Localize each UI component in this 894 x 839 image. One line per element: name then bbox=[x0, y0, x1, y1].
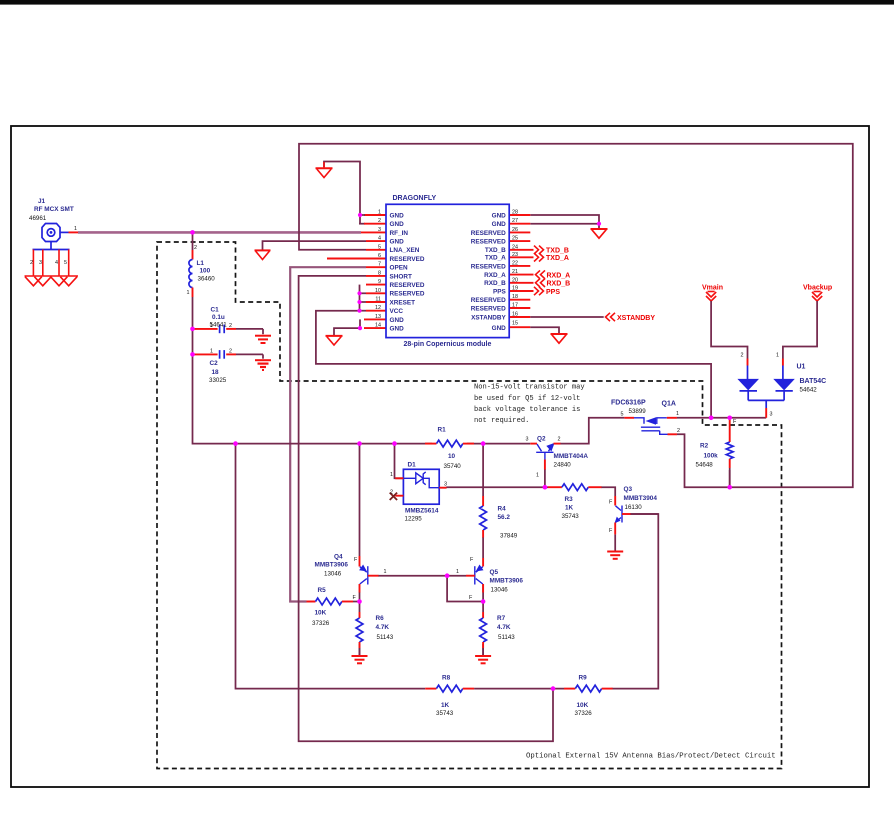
svg-text:DRAGONFLY: DRAGONFLY bbox=[393, 195, 437, 202]
node R4 branch junction bbox=[481, 441, 486, 446]
svg-text:13: 13 bbox=[375, 314, 381, 320]
wire pin15 stub and gnd bbox=[509, 326, 530, 328]
wire pin4 GND to ground bbox=[263, 241, 367, 250]
svg-text:54642: 54642 bbox=[800, 387, 818, 394]
node A mid-rail left junction bbox=[233, 441, 238, 446]
svg-text:LNA_XEN: LNA_XEN bbox=[390, 247, 420, 254]
svg-text:4: 4 bbox=[378, 236, 381, 242]
svg-text:2: 2 bbox=[229, 349, 232, 355]
wire pin14 red stub bbox=[364, 327, 386, 329]
svg-text:RF MCX SMT: RF MCX SMT bbox=[34, 206, 74, 213]
resistor R7 bbox=[480, 612, 516, 656]
svg-text:Q5: Q5 bbox=[490, 569, 499, 576]
svg-text:Vmain: Vmain bbox=[702, 285, 723, 292]
svg-text:5: 5 bbox=[378, 244, 381, 250]
svg-text:GND: GND bbox=[390, 317, 405, 324]
svg-text:3: 3 bbox=[444, 482, 447, 488]
svg-text:C2: C2 bbox=[210, 360, 219, 367]
wire RF_IN red stub pin3 bbox=[361, 231, 386, 233]
svg-text:2: 2 bbox=[194, 245, 197, 251]
svg-text:RESERVED: RESERVED bbox=[390, 282, 425, 289]
resistor R4 bbox=[480, 496, 518, 540]
diode D1 (zener, boxed) bbox=[390, 462, 447, 523]
node R2 bottom junction bbox=[727, 485, 732, 490]
wire R1 right to Q2 pin3 bbox=[467, 443, 530, 445]
svg-text:R9: R9 bbox=[579, 675, 588, 682]
wire pin24 stub bbox=[509, 249, 533, 251]
wire OPEN net: pin7 left and down to R5 bbox=[290, 267, 366, 601]
wire Q5 emitter column R4 bottom bbox=[482, 537, 484, 558]
svg-text:PPS: PPS bbox=[493, 288, 507, 295]
wire node A column down to R8 rail bbox=[236, 444, 426, 689]
node RF line / L1 junction bbox=[190, 230, 195, 235]
connector J1 RF MCX SMT bbox=[29, 198, 78, 250]
IC right pin numbers bbox=[512, 210, 518, 327]
svg-text:37849: 37849 bbox=[500, 533, 518, 540]
inductor L1 bbox=[187, 245, 216, 297]
svg-text:R1: R1 bbox=[438, 427, 447, 434]
svg-text:TXD_A: TXD_A bbox=[485, 255, 506, 262]
svg-text:36460: 36460 bbox=[198, 276, 216, 283]
node pin14 gnd junction bbox=[358, 326, 362, 330]
svg-text:17: 17 bbox=[512, 303, 518, 309]
transistor Q1A FDC6316P (P-MOSFET) bbox=[611, 400, 680, 435]
svg-text:8: 8 bbox=[378, 270, 381, 276]
resistor R5 bbox=[307, 587, 360, 627]
op IC U-module DRAGONFLY 28-pin Copernicus module bbox=[386, 195, 509, 348]
svg-text:GND: GND bbox=[492, 212, 507, 219]
svg-text:GND: GND bbox=[390, 326, 405, 333]
wire pin18 stub bbox=[509, 299, 530, 301]
resistor R3 bbox=[548, 484, 602, 520]
capacitor C1 bbox=[195, 307, 264, 335]
node R2 top junction bbox=[727, 416, 732, 421]
wire L1 branch down from RF line bbox=[192, 232, 194, 250]
node D1 branch junction bbox=[392, 441, 397, 446]
svg-text:23: 23 bbox=[512, 252, 518, 258]
port XSTANDBY bbox=[606, 313, 656, 322]
svg-text:6: 6 bbox=[378, 253, 381, 259]
node Q4-Q5 base rail junction bbox=[445, 573, 450, 578]
wire R6 bottom to ground bbox=[359, 644, 361, 655]
port TXD_B bbox=[534, 246, 569, 255]
schematic frame bbox=[11, 126, 869, 787]
node pin12 VCC junction bbox=[357, 309, 361, 313]
svg-text:R2: R2 bbox=[700, 443, 709, 450]
svg-text:16: 16 bbox=[512, 312, 518, 318]
svg-text:MMBT3904: MMBT3904 bbox=[624, 495, 658, 502]
wire R2 column bbox=[729, 468, 731, 487]
svg-text:26: 26 bbox=[512, 227, 518, 233]
svg-text:J1: J1 bbox=[38, 198, 46, 205]
wire main mid rail at y=443.6 bbox=[236, 443, 433, 445]
wire pin2 red stub bbox=[359, 223, 365, 225]
svg-text:R5: R5 bbox=[318, 587, 327, 594]
wire pins9-12 red stubs bbox=[366, 284, 386, 286]
wire SHORT net: pin8 left, down, right to R8/R9 junction bbox=[299, 276, 553, 741]
svg-text:37326: 37326 bbox=[575, 710, 593, 717]
svg-text:3: 3 bbox=[39, 260, 42, 266]
svg-text:4.7K: 4.7K bbox=[376, 624, 390, 631]
ground bar under J1 bbox=[25, 276, 79, 286]
svg-text:5: 5 bbox=[621, 412, 624, 418]
svg-text:GND: GND bbox=[390, 239, 405, 246]
svg-text:28-pin Copernicus module: 28-pin Copernicus module bbox=[404, 341, 492, 348]
wire Q4 base to Q5 base rail bbox=[378, 575, 466, 577]
resistor R1 bbox=[425, 427, 474, 471]
svg-text:GND: GND bbox=[492, 221, 507, 228]
port PPS bbox=[534, 287, 560, 296]
svg-text:RF_IN: RF_IN bbox=[390, 230, 409, 237]
svg-text:100k: 100k bbox=[704, 453, 719, 460]
svg-text:back voltage tolerance is: back voltage tolerance is bbox=[474, 406, 580, 414]
svg-text:28: 28 bbox=[512, 210, 518, 216]
svg-text:0.1u: 0.1u bbox=[212, 314, 225, 321]
wire pin17 stub bbox=[509, 307, 530, 309]
node VCC / Q1A pin1 junction bbox=[709, 416, 714, 421]
svg-text:GND: GND bbox=[492, 325, 507, 332]
IC right pin names bbox=[471, 212, 507, 331]
svg-text:54648: 54648 bbox=[696, 462, 714, 469]
svg-text:not required.: not required. bbox=[474, 417, 529, 425]
svg-text:51143: 51143 bbox=[498, 634, 515, 641]
svg-text:XRESET: XRESET bbox=[390, 299, 416, 306]
wire pin6 reserved stub bbox=[327, 258, 386, 260]
svg-text:5: 5 bbox=[64, 260, 67, 266]
svg-text:56.2: 56.2 bbox=[498, 514, 511, 521]
wire pin23 stub bbox=[509, 256, 533, 258]
svg-text:37326: 37326 bbox=[312, 620, 330, 627]
svg-text:51143: 51143 bbox=[377, 634, 394, 641]
svg-text:12: 12 bbox=[375, 305, 381, 311]
wire RF line from J1 to RF_IN pin bbox=[78, 231, 361, 234]
svg-text:RESERVED: RESERVED bbox=[471, 297, 506, 304]
svg-text:46961: 46961 bbox=[29, 215, 47, 222]
svg-text:VCC: VCC bbox=[390, 308, 404, 315]
svg-text:PPS: PPS bbox=[546, 289, 560, 296]
svg-text:C1: C1 bbox=[211, 307, 220, 314]
wire VCC bus pins 9-12 bbox=[359, 285, 361, 311]
dashed boundary of optional antenna bias/protect circuit bbox=[157, 242, 782, 769]
wire pin19 stub bbox=[509, 290, 533, 292]
svg-text:9: 9 bbox=[378, 279, 381, 285]
wire LNA_XEN top loop: pin5 left, up, right along top, down right side to lower rail bbox=[299, 144, 853, 487]
svg-text:1: 1 bbox=[74, 226, 77, 232]
transistor Q2 MMBT404A bbox=[526, 435, 589, 478]
port RXD_B bbox=[536, 279, 571, 288]
node pin1 gnd junction bbox=[358, 213, 362, 217]
svg-text:27: 27 bbox=[512, 218, 518, 224]
wire pin16 stub and XSTANDBY run bbox=[509, 316, 530, 318]
svg-text:RXD_A: RXD_A bbox=[547, 272, 571, 279]
svg-text:11: 11 bbox=[375, 297, 381, 303]
port RXD_A bbox=[536, 270, 571, 279]
svg-text:10: 10 bbox=[448, 453, 456, 460]
svg-text:MMBT404A: MMBT404A bbox=[554, 453, 589, 460]
svg-text:TXD_B: TXD_B bbox=[485, 247, 506, 254]
svg-text:OPEN: OPEN bbox=[390, 265, 408, 272]
svg-text:35743: 35743 bbox=[562, 513, 580, 520]
svg-text:U1: U1 bbox=[797, 364, 806, 371]
node C2 junction bbox=[190, 352, 195, 357]
wire D1 drop from rail bbox=[395, 444, 404, 479]
svg-text:1K: 1K bbox=[441, 702, 450, 709]
svg-text:2: 2 bbox=[390, 490, 393, 496]
svg-text:2: 2 bbox=[229, 323, 232, 329]
svg-text:13046: 13046 bbox=[324, 571, 342, 578]
svg-text:RXD_A: RXD_A bbox=[484, 272, 506, 279]
wire R5 left link from OPEN net bbox=[307, 601, 316, 603]
ground earth under R7 bbox=[475, 656, 491, 663]
svg-text:RESERVED: RESERVED bbox=[471, 305, 506, 312]
svg-text:MMBT3906: MMBT3906 bbox=[490, 578, 524, 585]
node Vmain port bbox=[702, 285, 723, 302]
page top rule bbox=[0, 0, 894, 5]
wire pin13 red stub bbox=[364, 318, 386, 320]
node R8/R9 junction bbox=[551, 686, 556, 691]
svg-text:RESERVED: RESERVED bbox=[471, 239, 506, 246]
node Q4 emitter column junction bbox=[357, 441, 362, 446]
transistor Q5 MMBT3906 bbox=[456, 557, 523, 601]
note text block bbox=[474, 384, 585, 426]
ground gnd top-left (pins 1-2 net) bbox=[316, 162, 333, 178]
svg-text:1K: 1K bbox=[565, 505, 574, 512]
wire base rail tie down to Q5 collector node bbox=[447, 576, 483, 602]
wire Q3 base right corner down bbox=[630, 513, 658, 515]
svg-text:7: 7 bbox=[378, 262, 381, 268]
wire R8 to R9 link bbox=[474, 688, 564, 690]
svg-text:MMBZ5614: MMBZ5614 bbox=[405, 508, 439, 515]
ground earth under C1 bbox=[255, 336, 271, 343]
svg-text:R4: R4 bbox=[498, 506, 507, 513]
resistor R2 bbox=[696, 418, 738, 487]
svg-text:1: 1 bbox=[210, 349, 213, 355]
svg-text:1: 1 bbox=[187, 290, 190, 296]
svg-text:Non-15-volt transistor may: Non-15-volt transistor may bbox=[474, 384, 585, 392]
svg-text:R3: R3 bbox=[565, 496, 574, 503]
svg-text:TXD_B: TXD_B bbox=[546, 248, 569, 255]
svg-text:1: 1 bbox=[776, 353, 779, 359]
svg-text:MMBT3906: MMBT3906 bbox=[315, 562, 349, 569]
wire pin21 stub bbox=[509, 274, 533, 276]
svg-text:2: 2 bbox=[558, 437, 561, 443]
svg-text:3: 3 bbox=[526, 437, 529, 443]
svg-text:GND: GND bbox=[390, 221, 405, 228]
wire Q2 emitter up to Q1A gate bbox=[560, 418, 624, 444]
svg-text:53899: 53899 bbox=[629, 408, 647, 415]
svg-text:Vbackup: Vbackup bbox=[803, 285, 832, 292]
svg-text:Optional External 15V Antenna: Optional External 15V Antenna Bias/Prote… bbox=[526, 753, 776, 761]
node C1 junction bbox=[190, 327, 195, 332]
svg-text:Q4: Q4 bbox=[334, 554, 343, 561]
svg-text:10: 10 bbox=[375, 288, 381, 294]
svg-text:33025: 33025 bbox=[209, 377, 227, 384]
wire pin27 red stub bbox=[509, 223, 530, 225]
svg-text:21: 21 bbox=[512, 269, 518, 275]
node Q2 base / R3 junction bbox=[543, 485, 548, 490]
svg-text:2: 2 bbox=[30, 260, 33, 266]
resistor R9 bbox=[564, 675, 613, 718]
ground earth under C2 bbox=[255, 360, 271, 370]
svg-text:15: 15 bbox=[512, 321, 518, 327]
wire pin28 red stub bbox=[509, 214, 530, 216]
svg-text:1: 1 bbox=[536, 473, 539, 479]
wire rail to R4 top bbox=[482, 444, 484, 496]
wire pin8 red stub bbox=[366, 275, 386, 277]
resistor R6 bbox=[356, 612, 394, 656]
node pin27 gnd junction bbox=[597, 222, 601, 226]
svg-text:35743: 35743 bbox=[436, 710, 454, 717]
svg-text:Q2: Q2 bbox=[537, 435, 546, 442]
svg-text:35740: 35740 bbox=[444, 463, 462, 470]
svg-text:4: 4 bbox=[55, 260, 58, 266]
wire pin20 stub bbox=[509, 282, 533, 284]
wire Q1A pin1 to VCC node rail and U1 bbox=[677, 417, 767, 419]
wire Vmain to U1 left diode bbox=[711, 301, 747, 359]
wire D1 pin3 rail to Q2 base node and R3 bbox=[446, 486, 548, 488]
wire pin7 red stub bbox=[366, 266, 386, 268]
IC left pin numbers bbox=[375, 210, 381, 329]
wire pin26 stub bbox=[509, 231, 530, 233]
svg-text:16130: 16130 bbox=[625, 504, 643, 511]
svg-text:12295: 12295 bbox=[405, 516, 423, 523]
svg-text:1: 1 bbox=[378, 210, 381, 216]
wire pin25 stub bbox=[509, 240, 530, 242]
ground gnd pin4 bbox=[255, 250, 271, 259]
wire L1 bottom to C1/C2 column down to corner bbox=[193, 297, 236, 444]
ground gnd pins27-28 bbox=[591, 229, 608, 238]
wire GND pins1-2 to ground branch bbox=[324, 162, 360, 224]
wire pin27 link bbox=[530, 223, 599, 225]
wire pin28 gnd loop bbox=[530, 215, 599, 229]
J1 shield legs bbox=[30, 250, 69, 277]
wire R9 right up to Q3 base bbox=[612, 514, 659, 689]
svg-text:14: 14 bbox=[375, 323, 381, 329]
svg-text:TXD_A: TXD_A bbox=[546, 255, 569, 262]
ground gnd pins13-14 bbox=[326, 336, 343, 345]
wire Q4 emitter column from rail bbox=[359, 444, 361, 556]
IC left pin names bbox=[390, 212, 425, 332]
port TXD_A bbox=[534, 253, 569, 262]
svg-text:FDC6316P: FDC6316P bbox=[611, 400, 646, 407]
wire Q3 emitter to ground bbox=[614, 534, 616, 551]
node Vbackup port bbox=[803, 285, 832, 302]
svg-text:D1: D1 bbox=[408, 462, 417, 469]
svg-text:2: 2 bbox=[741, 353, 744, 359]
svg-text:R7: R7 bbox=[497, 615, 506, 622]
svg-text:RESERVED: RESERVED bbox=[390, 256, 425, 263]
svg-text:R8: R8 bbox=[442, 675, 451, 682]
node pin10 junction bbox=[357, 291, 361, 295]
svg-text:BAT54C: BAT54C bbox=[800, 378, 827, 385]
svg-text:10K: 10K bbox=[315, 610, 327, 617]
wire R7 bottom to ground bbox=[482, 644, 484, 655]
wire pins13-14 gnd link bbox=[334, 319, 360, 335]
svg-text:SHORT: SHORT bbox=[390, 273, 412, 280]
transistor Q4 MMBT3906 bbox=[315, 554, 387, 602]
wire Q2 base down to R3 rail bbox=[544, 469, 546, 487]
svg-text:22: 22 bbox=[512, 260, 518, 266]
svg-text:Q1A: Q1A bbox=[662, 401, 676, 408]
wire R3 right to Q3 collector bbox=[601, 487, 615, 496]
wire pin22 stub bbox=[509, 265, 530, 267]
svg-text:XSTANDBY: XSTANDBY bbox=[617, 315, 655, 322]
svg-text:3: 3 bbox=[378, 227, 381, 233]
node Q4 collector / R5 / R6 junction bbox=[357, 599, 362, 604]
svg-text:L1: L1 bbox=[197, 260, 205, 267]
wire Vbackup to U1 right diode bbox=[783, 301, 817, 359]
svg-text:be used for Q5 if 12-volt: be used for Q5 if 12-volt bbox=[474, 395, 580, 403]
svg-text:19: 19 bbox=[512, 286, 518, 292]
svg-text:1: 1 bbox=[390, 472, 393, 478]
svg-text:13046: 13046 bbox=[491, 587, 509, 594]
svg-text:XSTANDBY: XSTANDBY bbox=[471, 314, 506, 321]
svg-text:RXD_B: RXD_B bbox=[484, 280, 506, 287]
transistor Q3 MMBT3904 bbox=[609, 486, 657, 534]
wire pin1 link bbox=[360, 214, 365, 216]
svg-text:2: 2 bbox=[378, 218, 381, 224]
svg-text:20: 20 bbox=[512, 277, 518, 283]
svg-text:54641: 54641 bbox=[210, 322, 228, 329]
node Q5 collector / R7 junction bbox=[481, 599, 486, 604]
svg-text:1: 1 bbox=[384, 569, 387, 575]
svg-text:10K: 10K bbox=[577, 702, 589, 709]
wire Q5 collector to R7 bbox=[482, 585, 484, 602]
svg-text:RESERVED: RESERVED bbox=[471, 230, 506, 237]
svg-text:25: 25 bbox=[512, 236, 518, 242]
svg-text:24: 24 bbox=[512, 244, 518, 250]
ground earth under Q3 bbox=[607, 552, 623, 559]
capacitor C2 bbox=[195, 349, 264, 385]
svg-text:1: 1 bbox=[456, 569, 459, 575]
svg-text:18: 18 bbox=[512, 294, 518, 300]
svg-text:4.7K: 4.7K bbox=[497, 624, 511, 631]
wire R6 top link bbox=[359, 602, 361, 613]
wire VCC run to Q1A node bbox=[316, 311, 711, 418]
wire pin1 red stub bbox=[364, 214, 386, 216]
svg-text:2: 2 bbox=[677, 428, 680, 434]
svg-text:RESERVED: RESERVED bbox=[390, 291, 425, 298]
wire pin4 red stub bbox=[366, 240, 386, 242]
svg-text:18: 18 bbox=[212, 369, 220, 376]
svg-text:RESERVED: RESERVED bbox=[471, 263, 506, 270]
svg-text:100: 100 bbox=[200, 268, 211, 275]
svg-text:RXD_B: RXD_B bbox=[547, 281, 571, 288]
node pin11 junction bbox=[357, 300, 361, 304]
ground earth under R6 bbox=[352, 656, 368, 663]
resistor R8 bbox=[425, 675, 474, 718]
wire pin5 red stub bbox=[366, 249, 386, 251]
wire Q4 collector to R5/R6 node bbox=[359, 592, 361, 602]
ground gnd pin15 bbox=[551, 334, 568, 343]
diode U1 BAT54C dual schottky bbox=[737, 353, 826, 418]
svg-text:3: 3 bbox=[770, 412, 773, 418]
svg-text:R6: R6 bbox=[376, 615, 385, 622]
svg-text:GND: GND bbox=[390, 212, 405, 219]
svg-text:Q3: Q3 bbox=[624, 486, 633, 493]
svg-text:1: 1 bbox=[676, 411, 679, 417]
svg-text:24840: 24840 bbox=[554, 462, 572, 469]
